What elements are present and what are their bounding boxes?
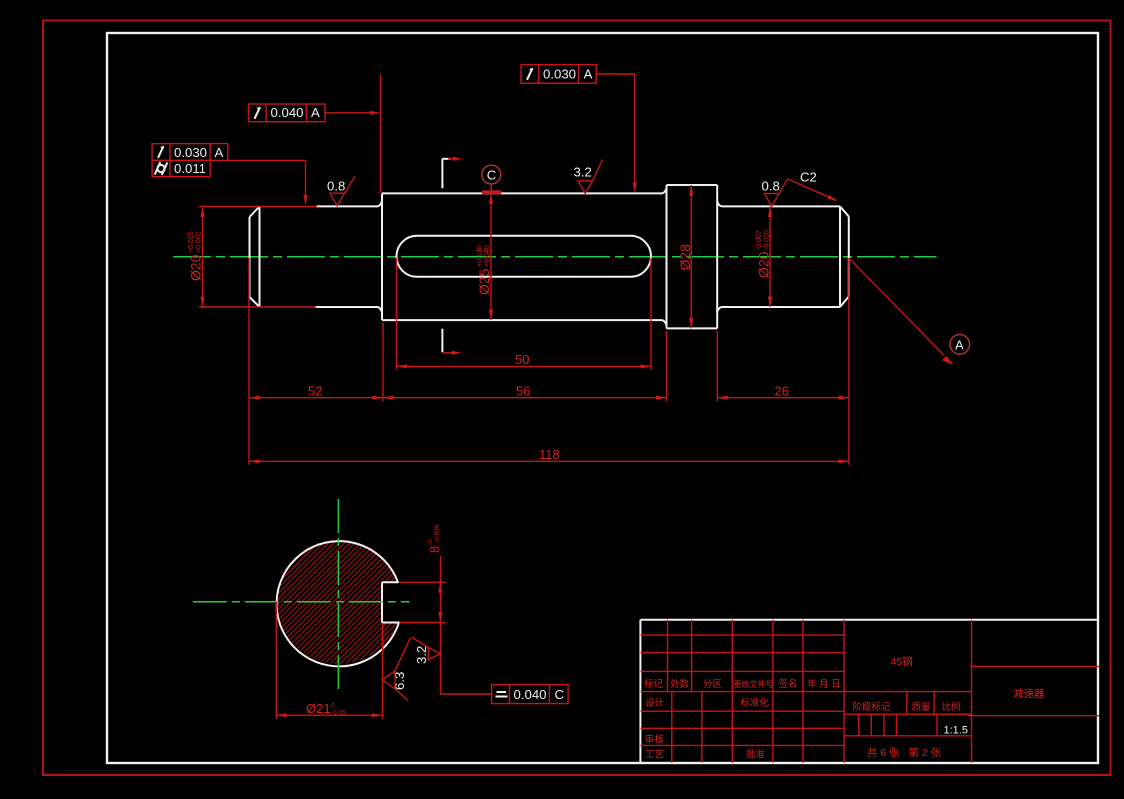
- svg-text:0.030: 0.030: [543, 66, 576, 81]
- red vertical line at shoulder: [380, 74, 382, 193]
- svg-text:1:1.5: 1:1.5: [944, 725, 968, 737]
- svg-text:-0.007: -0.007: [756, 230, 763, 250]
- section circle outline: [277, 541, 400, 666]
- svg-text:比例: 比例: [942, 701, 961, 713]
- horizontals left table: [640, 634, 844, 636]
- svg-text:50: 50: [515, 352, 529, 367]
- svg-text:审核: 审核: [645, 734, 665, 746]
- svg-text:Ø20: Ø20: [756, 251, 772, 278]
- FCF leader (0.030/0.011): [228, 160, 306, 198]
- svg-text:0.8: 0.8: [327, 179, 345, 194]
- left journal bottom line: [315, 307, 382, 312]
- svg-text:Ø28: Ø28: [677, 244, 693, 271]
- svg-text:0.030: 0.030: [174, 145, 207, 160]
- svg-text:标记: 标记: [644, 678, 664, 690]
- verticals upper left table: [667, 620, 669, 692]
- title block red grid: [640, 620, 1099, 763]
- datum A leader: [849, 258, 944, 355]
- svg-text:0.040: 0.040: [271, 105, 304, 120]
- right journal bottom line: [717, 307, 840, 312]
- svg-text:0: 0: [427, 539, 434, 543]
- middle column lines: [844, 713, 972, 715]
- svg-text:分区: 分区: [703, 679, 723, 690]
- title block outer white lines: [640, 620, 1098, 763]
- svg-text:6.3: 6.3: [392, 672, 407, 690]
- dia20 right dimension: [769, 206, 771, 307]
- svg-text:+0.140: +0.140: [477, 245, 484, 267]
- dia25 dimension: [490, 193, 492, 320]
- svg-text:+0.040: +0.040: [484, 245, 491, 267]
- svg-text:45钢: 45钢: [891, 655, 913, 668]
- verticals lower left table: [671, 692, 673, 763]
- hatch lines (red) clipped to circle: [277, 539, 402, 664]
- svg-text:-0.05: -0.05: [331, 710, 346, 717]
- svg-text:A: A: [584, 66, 593, 81]
- svg-text:118: 118: [539, 447, 560, 462]
- svg-text:阶段标记: 阶段标记: [853, 701, 892, 713]
- section cut mark top: [442, 159, 450, 189]
- svg-text:-0.020: -0.020: [764, 230, 771, 250]
- svg-text:C: C: [487, 168, 496, 183]
- svg-text:26: 26: [775, 383, 789, 398]
- svg-text:处数: 处数: [670, 678, 690, 690]
- shoulder face x=382: [381, 193, 383, 320]
- svg-text:签名: 签名: [779, 678, 798, 690]
- svg-text:0.011: 0.011: [174, 161, 206, 176]
- svg-text:52: 52: [308, 383, 322, 398]
- svg-text:0.040: 0.040: [514, 687, 547, 702]
- FCF runout 0.030 A: [152, 144, 228, 161]
- left journal outline (white): [250, 185, 849, 328]
- dia28 dimension: [690, 185, 692, 328]
- svg-text:C: C: [555, 687, 565, 702]
- collar top line: [667, 184, 718, 186]
- svg-text:3.2: 3.2: [574, 165, 592, 180]
- svg-text:质量: 质量: [912, 701, 932, 713]
- dim 50 (keyway): [397, 258, 652, 370]
- keyway (stadium): [397, 236, 652, 277]
- FCF runout 0.030 A (top): [521, 65, 596, 84]
- svg-text:Ø20: Ø20: [188, 254, 204, 281]
- FCF runout 0.040 A: [248, 104, 325, 122]
- keyway slot cutout (black): [382, 582, 404, 622]
- svg-text:A: A: [311, 105, 320, 120]
- section cut mark bottom: [441, 329, 443, 353]
- section center lines (green): [193, 601, 410, 603]
- right journal top line: [717, 202, 840, 207]
- svg-text:+0.015: +0.015: [188, 231, 195, 253]
- right end face: [839, 206, 841, 307]
- svg-text:Ø21: Ø21: [306, 701, 331, 716]
- middle section bottom line: [382, 320, 667, 325]
- dia20 left text: [188, 231, 204, 281]
- small cells: [858, 714, 860, 736]
- svg-text:共 6 张 第 2 张: 共 6 张 第 2 张: [867, 746, 942, 759]
- svg-text:0.8: 0.8: [762, 179, 780, 194]
- top FCF leader: [596, 74, 635, 185]
- svg-text:0: 0: [331, 703, 335, 710]
- svg-text:3.2: 3.2: [414, 646, 429, 664]
- title block texts: [644, 655, 1045, 761]
- FCF symmetry 0.040 C: [492, 685, 568, 704]
- svg-text:56: 56: [516, 383, 530, 398]
- stage row separators: [906, 692, 908, 715]
- svg-text:标准化: 标准化: [741, 697, 770, 709]
- FCF cylindricity 0.011: [152, 160, 210, 176]
- svg-text:8: 8: [427, 546, 442, 553]
- middle section top line: [382, 189, 667, 194]
- collar bottom line: [667, 327, 718, 329]
- svg-text:+0.002: +0.002: [196, 231, 203, 253]
- keyway slot outline: [382, 582, 399, 622]
- svg-text:C2: C2: [800, 170, 817, 185]
- svg-text:工艺: 工艺: [645, 750, 664, 761]
- left end face (chamfered): [249, 217, 251, 297]
- svg-text:A: A: [955, 337, 964, 352]
- dim 118: [249, 460, 849, 462]
- collar right face: [716, 185, 718, 328]
- dim 8 (keyway width): [399, 556, 492, 694]
- svg-text:减速器: 减速器: [1013, 688, 1045, 700]
- left journal top line: [316, 202, 382, 207]
- collar left face: [666, 185, 668, 328]
- svg-text:A: A: [215, 145, 224, 160]
- right end chamfer: [840, 206, 849, 216]
- 0.040A leader: [325, 112, 372, 114]
- svg-text:批准: 批准: [746, 749, 766, 761]
- datum C symbol: [482, 165, 501, 184]
- dia20 left dimension: [199, 206, 317, 307]
- dim 52 / 56 / 26 row: [249, 258, 849, 465]
- left chamfer edge: [259, 206, 261, 307]
- shaft center line (green): [173, 256, 937, 258]
- svg-text:-0.036: -0.036: [434, 524, 441, 543]
- right column lines: [972, 665, 1100, 667]
- svg-text:设计: 设计: [645, 697, 665, 709]
- svg-text:年 月 日: 年 月 日: [807, 678, 841, 690]
- dim dia21: [276, 602, 382, 719]
- svg-text:更改文件号: 更改文件号: [734, 679, 774, 689]
- svg-text:Ø25: Ø25: [476, 268, 492, 295]
